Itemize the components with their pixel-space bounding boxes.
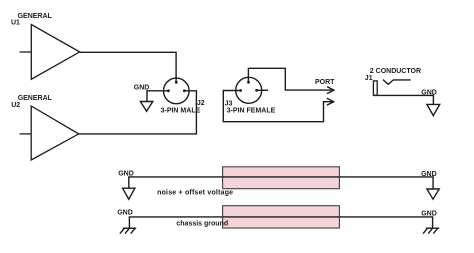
chassis ground (row2 left) (120, 228, 136, 233)
svg-text:noise + offset voltage: noise + offset voltage (157, 190, 233, 197)
ground (GND near J1) (427, 104, 440, 115)
svg-text:3-PIN MALE: 3-PIN MALE (161, 108, 201, 115)
svg-text:GND: GND (421, 211, 437, 218)
connector J3 (3-pin female XLR) (236, 77, 262, 103)
wire noise + offset voltage net (129, 177, 433, 189)
svg-text:U1: U1 (11, 19, 20, 26)
wire J1 sleeve to GND (373, 95, 433, 104)
op-amp U2 (20, 106, 79, 160)
highlight box (chassis ground) (223, 206, 340, 228)
ground (GND near J2) (140, 102, 152, 112)
chassis ground (row2 right) (423, 228, 439, 233)
wire J3 top pin to PORT (upper) (248, 68, 332, 90)
pin 2 (top) (247, 81, 250, 84)
pin 1 (left) (167, 89, 170, 92)
svg-text:J3: J3 (225, 101, 233, 108)
svg-text:GND: GND (421, 171, 437, 178)
wire U1 output to J2 top pin (80, 52, 176, 82)
connector J1 (2-conductor phone jack) sleeve (373, 81, 377, 95)
pin 3 (right) (255, 89, 258, 92)
arrowhead upper PORT (327, 87, 334, 94)
svg-text:GND: GND (117, 210, 133, 217)
svg-text:GND: GND (134, 85, 150, 92)
svg-text:J2: J2 (197, 100, 205, 107)
stub on J3 right pin (257, 89, 268, 91)
ground (row1 right) (427, 189, 439, 199)
highlight box (noise + offset voltage) (223, 167, 340, 189)
pin 2 (top) (175, 81, 178, 84)
wire J3 left pin to PORT (lower) (223, 91, 332, 122)
wire J2 right pin to U2 output (79, 91, 197, 134)
svg-text:J1: J1 (365, 75, 373, 82)
svg-text:3-PIN FEMALE: 3-PIN FEMALE (227, 108, 276, 115)
svg-text:GENERAL: GENERAL (18, 95, 53, 102)
wire through box row1 (223, 176, 340, 178)
wire chassis ground net (129, 217, 432, 228)
svg-text:GND: GND (421, 90, 437, 97)
pin 1 (left) (239, 89, 242, 92)
svg-text:2 CONDUCTOR: 2 CONDUCTOR (370, 68, 421, 75)
svg-text:GENERAL: GENERAL (18, 13, 53, 20)
svg-text:chassis ground: chassis ground (176, 221, 228, 228)
svg-text:PORT: PORT (315, 79, 335, 86)
arrowhead lower PORT (327, 98, 334, 105)
wire through box row2 (223, 216, 340, 218)
wire J2 left pin to GND (147, 91, 168, 102)
connector J2 (3-pin male XLR) (164, 78, 190, 104)
svg-text:U2: U2 (11, 102, 20, 109)
connector J1 tip contact (383, 80, 411, 85)
op-amp U1 (20, 25, 80, 80)
ground (row1 left) (123, 188, 135, 199)
pin 3 (right) (183, 89, 186, 92)
